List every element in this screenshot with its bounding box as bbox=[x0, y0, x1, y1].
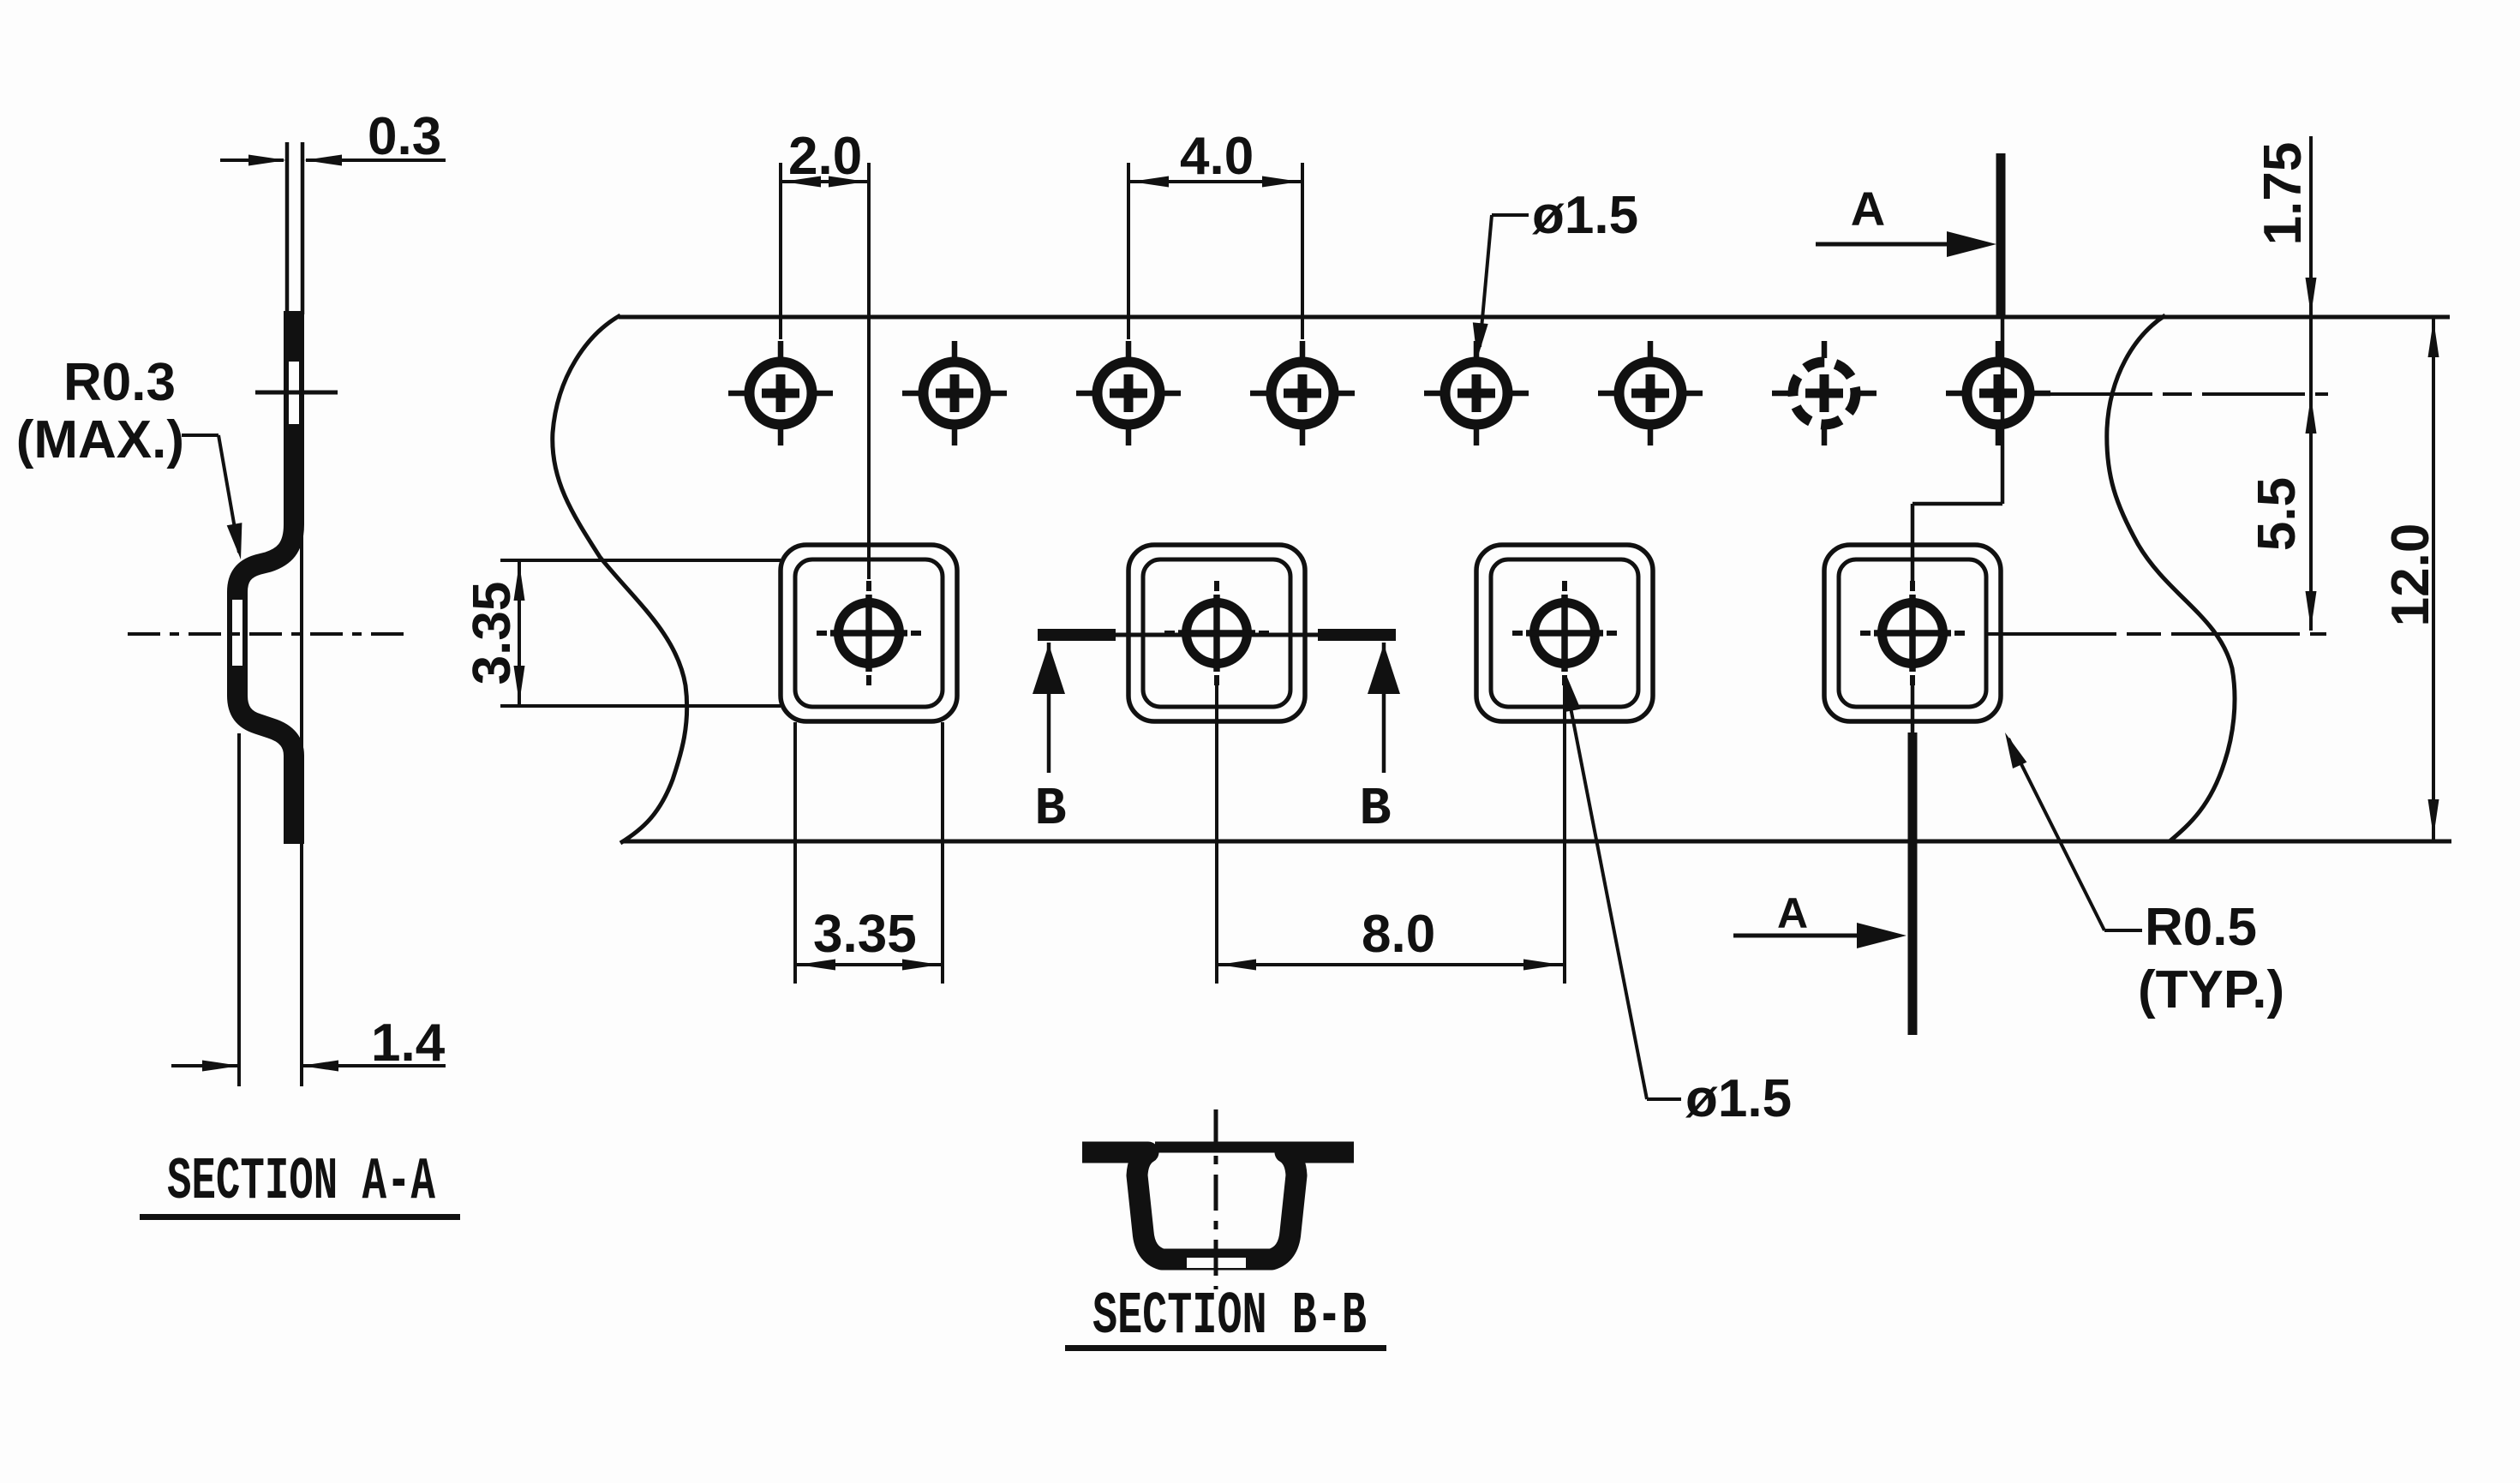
svg-text:A: A bbox=[1851, 182, 1885, 236]
svg-text:4.0: 4.0 bbox=[1180, 127, 1254, 186]
svg-text:(TYP.): (TYP.) bbox=[2138, 960, 2284, 1020]
svg-text:1.75: 1.75 bbox=[2254, 142, 2313, 246]
svg-text:R0.5: R0.5 bbox=[2145, 898, 2257, 957]
svg-text:12.0: 12.0 bbox=[2381, 523, 2440, 627]
svg-text:SECTION A-A: SECTION A-A bbox=[167, 1149, 435, 1217]
svg-text:B: B bbox=[1359, 779, 1391, 840]
svg-text:0.3: 0.3 bbox=[368, 107, 441, 166]
svg-text:A: A bbox=[1777, 889, 1808, 937]
svg-text:ø1.5: ø1.5 bbox=[1532, 186, 1638, 245]
svg-text:2.0: 2.0 bbox=[788, 127, 862, 186]
svg-text:R0.3: R0.3 bbox=[63, 353, 176, 412]
svg-text:3.35: 3.35 bbox=[463, 582, 522, 685]
svg-text:8.0: 8.0 bbox=[1362, 905, 1435, 964]
svg-text:5.5: 5.5 bbox=[2248, 477, 2307, 551]
svg-text:3.35: 3.35 bbox=[813, 905, 917, 964]
svg-text:SECTION B-B: SECTION B-B bbox=[1092, 1283, 1367, 1351]
svg-text:1.4: 1.4 bbox=[371, 1014, 446, 1073]
svg-text:(MAX.): (MAX.) bbox=[16, 410, 184, 469]
svg-text:ø1.5: ø1.5 bbox=[1685, 1069, 1792, 1128]
svg-text:B: B bbox=[1034, 779, 1066, 840]
